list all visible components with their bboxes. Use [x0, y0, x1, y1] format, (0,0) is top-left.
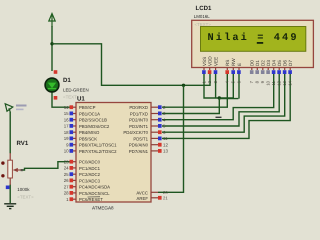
LCD pin 9 D2 — [260, 60, 265, 84]
svg-text:D6: D6 — [283, 60, 288, 66]
U1 pin 1 PC6/RESET — [66, 197, 103, 202]
svg-text:ATMEGA8: ATMEGA8 — [92, 206, 114, 211]
svg-text:19: 19 — [64, 136, 69, 141]
svg-text:PB6/XTAL1/TOSC1: PB6/XTAL1/TOSC1 — [79, 143, 117, 148]
svg-text:20: 20 — [163, 190, 168, 195]
U1 pin 16 PB2/SS/OC1B — [64, 117, 107, 122]
wire LCD D7 to PD5 pin 11 — [162, 73, 290, 138]
svg-text:PB5/SCK: PB5/SCK — [79, 136, 97, 141]
svg-text:18: 18 — [64, 130, 69, 135]
svg-text:D7: D7 — [288, 60, 293, 66]
RV1 terminal dot bottom — [1, 174, 4, 177]
U1 pin 18 PB4/MISO — [64, 130, 100, 135]
LCD pin 12 D5 — [277, 60, 282, 86]
U1 pin 11 PD5/T1 — [133, 136, 168, 141]
svg-text:PC2/ADC2: PC2/ADC2 — [79, 172, 101, 177]
node power/AVCC branch — [182, 84, 185, 87]
svg-text:U1: U1 — [77, 96, 85, 103]
svg-text:1000k: 1000k — [17, 187, 30, 192]
LCD pin 14 D7 — [288, 60, 293, 86]
svg-text:PD5/T1: PD5/T1 — [133, 136, 148, 141]
svg-text:10: 10 — [266, 80, 271, 85]
svg-text:13: 13 — [282, 80, 287, 85]
U1 pin 15 PB1/OC1A — [64, 111, 100, 117]
node ground rail junction — [218, 96, 221, 99]
svg-text:14: 14 — [64, 105, 69, 110]
svg-text:D1: D1 — [255, 60, 260, 66]
wire VEE down to ground rail — [215, 73, 217, 98]
wire power branch to AVCC pin 20 — [158, 85, 184, 192]
svg-text:Nilai = 449: Nilai = 449 — [208, 32, 297, 44]
RV1 ground indicator — [6, 186, 10, 190]
U1 pin 12 PD6/AIN0 — [129, 142, 169, 147]
power symbol (+5V arrow, top) — [49, 14, 55, 28]
wire LCD D5 to PD3 pin 5 — [162, 73, 279, 126]
wire LCD D6 to PD4 pin 6 — [162, 73, 285, 132]
svg-text:PD6/AIN0: PD6/AIN0 — [129, 143, 149, 148]
U1 pin 26 PC3/ADC3 — [64, 178, 101, 183]
svg-text:D1: D1 — [63, 77, 71, 84]
U1 pin 27 PC4/ADC4/SDA — [64, 184, 110, 189]
U1 pin 21 AREF — [137, 195, 169, 200]
svg-text:D0: D0 — [250, 60, 255, 66]
LCD pin 2 VDD — [207, 56, 212, 84]
net label dash — [216, 117, 222, 118]
svg-text:PB2/SS/OC1B: PB2/SS/OC1B — [79, 118, 107, 123]
U1 pin 5 PD3/INT1 — [129, 124, 166, 130]
D1 cathode indicator — [54, 96, 58, 100]
svg-text:PB7/XTAL2/TOSC2: PB7/XTAL2/TOSC2 — [79, 149, 117, 154]
svg-text:<TEXT>: <TEXT> — [17, 195, 34, 200]
U1 pin 2 PD0/RXD — [129, 105, 166, 110]
svg-text:D2: D2 — [261, 60, 266, 66]
svg-text:PC6/RESET: PC6/RESET — [79, 197, 103, 202]
svg-text:PD2/INT0: PD2/INT0 — [129, 118, 148, 123]
U1 pin 28 PC5/ADC5/SCL — [64, 191, 110, 196]
svg-text:17: 17 — [64, 124, 69, 129]
wire RV1 bottom to ground — [9, 185, 11, 204]
wire power to RV1 top — [9, 112, 11, 154]
svg-text:24: 24 — [64, 166, 69, 171]
LCD pin 11 D4 — [271, 60, 276, 86]
U1 pin 10 PB7/XTAL2/TOSC2 — [64, 149, 117, 154]
svg-text:25: 25 — [64, 172, 69, 177]
power symbol (diagonal, near RV1) — [5, 104, 13, 113]
svg-text:PD7/AIN1: PD7/AIN1 — [129, 149, 149, 154]
RV1 terminal dot top — [1, 161, 4, 164]
LCD pin 3 VEE — [213, 57, 218, 84]
svg-text:VDD: VDD — [208, 56, 213, 66]
svg-text:16: 16 — [64, 117, 69, 122]
svg-text:PC1/ADC1: PC1/ADC1 — [79, 166, 101, 171]
resistor RV1 (potentiometer 1000k) — [8, 153, 22, 185]
LCD pin 4 RS — [225, 60, 230, 84]
wire ground rail VSS/VEE/RW — [204, 73, 233, 98]
U1 pin 24 PC1/ADC1 — [64, 166, 101, 171]
svg-text:11: 11 — [271, 80, 276, 85]
LCD pin 8 D1 — [255, 60, 260, 84]
svg-text:VSS: VSS — [202, 57, 207, 66]
U1 pin 20 AVCC — [136, 190, 168, 195]
svg-text:13: 13 — [163, 149, 168, 154]
svg-text:LM016L: LM016L — [194, 14, 210, 19]
svg-text:E: E — [237, 63, 242, 66]
U1 pin 9 PB6/XTAL1/TOSC1 — [66, 142, 117, 147]
svg-text:12: 12 — [277, 80, 282, 85]
svg-text:RV1: RV1 — [17, 140, 29, 147]
svg-text:PC4/ADC4/SDA: PC4/ADC4/SDA — [79, 185, 110, 190]
U1 pin 3 PD1/TXD — [130, 111, 166, 117]
ground — [4, 204, 16, 209]
svg-text:23: 23 — [64, 159, 69, 164]
svg-text:D5: D5 — [277, 60, 282, 66]
svg-text:PC5/ADC5/SCL: PC5/ADC5/SCL — [79, 191, 110, 196]
LCD pin 1 VSS — [201, 57, 206, 84]
svg-text:PB1/OC1A: PB1/OC1A — [79, 112, 100, 117]
LED D1 (LED-GREEN) — [45, 78, 59, 92]
svg-text:12: 12 — [163, 142, 168, 147]
wire LCD E to PD1 pin 3 — [238, 73, 240, 99]
node power/LED junction — [50, 42, 53, 45]
svg-text:PB0/ICP: PB0/ICP — [79, 105, 96, 110]
LCD pin 5 RW — [231, 58, 236, 84]
svg-text:D3: D3 — [266, 60, 271, 66]
wire LED cathode to PB0 pin 14 — [52, 92, 70, 107]
U1 pin 19 PB5/SCK — [64, 136, 98, 141]
U1 pin 4 PD2/INT0 — [129, 117, 166, 122]
svg-text:27: 27 — [64, 184, 69, 189]
svg-text:26: 26 — [64, 178, 69, 183]
svg-text:LCD1: LCD1 — [196, 5, 213, 12]
LCD pin 7 D0 — [249, 60, 254, 84]
wire LCD RS to PD0 pin 2 — [162, 73, 227, 107]
svg-text:D4: D4 — [272, 60, 277, 66]
svg-text:14: 14 — [288, 80, 293, 85]
svg-text:28: 28 — [64, 191, 69, 196]
svg-text:AREF: AREF — [137, 196, 149, 201]
svg-text:21: 21 — [163, 195, 168, 200]
LCD1 LM016L display — [192, 20, 314, 67]
wire power vertical to LED anode — [51, 26, 53, 71]
D1 anode indicator — [54, 70, 58, 74]
svg-text:PC3/ADC3: PC3/ADC3 — [79, 178, 101, 183]
svg-text:PD4/XCK/T0: PD4/XCK/T0 — [123, 130, 148, 135]
svg-text:RS: RS — [225, 60, 230, 66]
svg-text:VEE: VEE — [213, 57, 218, 66]
LCD pin 13 D6 — [282, 60, 287, 86]
svg-text:PB4/MISO: PB4/MISO — [79, 130, 100, 135]
LCD screen — [201, 27, 306, 52]
svg-text:10: 10 — [64, 149, 69, 154]
U1 pin 6 PD4/XCK/T0 — [123, 130, 166, 135]
svg-text:PD0/RXD: PD0/RXD — [129, 105, 148, 110]
svg-text:LED-GREEN: LED-GREEN — [63, 88, 89, 93]
svg-text:15: 15 — [64, 111, 69, 116]
U1 pin 17 PB3/MOSI/OC2 — [64, 124, 110, 130]
svg-text:PD1/TXD: PD1/TXD — [130, 112, 148, 117]
LCD pin 10 D3 — [266, 60, 271, 86]
wire power rail to LCD VDD — [52, 44, 210, 86]
U1 pin 25 PC2/ADC2 — [64, 172, 101, 177]
wire RV1 wiper to PC0 pin 23 — [22, 162, 70, 170]
svg-text:RW: RW — [231, 58, 236, 66]
svg-text:PD3/INT1: PD3/INT1 — [129, 124, 148, 129]
svg-text:AVCC: AVCC — [136, 190, 148, 195]
wire LCD D4 to PD2 pin 4 — [162, 73, 274, 120]
svg-text:PC0/ADC0: PC0/ADC0 — [79, 160, 101, 165]
U1 pin 23 PC0/ADC0 — [64, 159, 101, 164]
op-amp U1 (ATMEGA8 MCU) — [76, 103, 151, 203]
wire RW down to ground rail — [232, 73, 234, 98]
LCD pin 6 E — [236, 63, 241, 83]
U1 pin 13 PD7/AIN1 — [129, 149, 169, 154]
svg-text:PB3/MOSI/OC2: PB3/MOSI/OC2 — [79, 124, 110, 129]
RV1 wiper origin dot — [21, 169, 23, 171]
svg-text:11: 11 — [163, 136, 168, 141]
U1 pin 14 PB0/ICP — [64, 105, 96, 110]
